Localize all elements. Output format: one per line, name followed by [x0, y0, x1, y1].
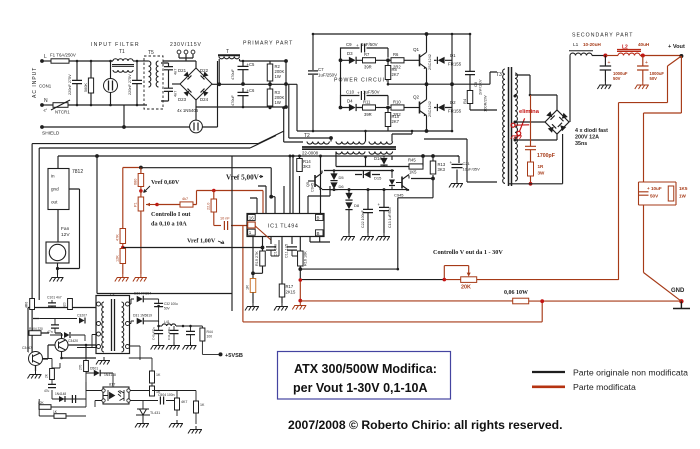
right vertical DC link — [285, 61, 287, 107]
resistor R505 — [50, 369, 55, 380]
node T2 far right — [411, 130, 414, 133]
ground Q1s — [28, 371, 42, 379]
svg-text:1uF/50V: 1uF/50V — [363, 90, 380, 95]
ground Cout2 (red) — [635, 82, 649, 90]
left border vertical A — [31, 144, 33, 352]
pin 15 box (red) — [248, 222, 256, 228]
R19 bottom — [253, 266, 263, 273]
capacitor CX1 220nF/275V — [72, 80, 82, 83]
optocoupler PC817 box — [103, 387, 129, 404]
svg-text:47u: 47u — [44, 389, 50, 393]
svg-text:C9: C9 — [346, 42, 352, 47]
Vref rail black — [141, 168, 271, 197]
resistor R44 100R — [200, 328, 205, 341]
capacitor C8 2nF/1KV — [465, 71, 475, 74]
capacitor C22 100nF — [363, 209, 373, 212]
svg-text:1K: 1K — [200, 403, 205, 407]
ground C13 — [376, 233, 390, 241]
svg-text:C504 100n: C504 100n — [158, 393, 175, 397]
svg-text:50V: 50V — [164, 307, 171, 311]
node pin h top — [319, 155, 322, 158]
node CX2 top — [136, 60, 139, 63]
cluster mid rail — [322, 189, 409, 191]
C101 leads — [51, 300, 53, 308]
svg-text:FR155: FR155 — [448, 109, 462, 114]
D14 to rail — [383, 166, 385, 167]
node controllo left — [299, 278, 303, 282]
capacitor C41 470u — [170, 330, 179, 333]
svg-text:+C5: +C5 — [247, 62, 255, 67]
capacitor C10 loop — [341, 96, 389, 108]
svg-text:470uF: 470uF — [231, 95, 235, 106]
node dc link bottom — [284, 105, 288, 109]
svg-text:D501: D501 — [90, 367, 98, 371]
pin 16 box — [248, 215, 256, 221]
resistor R3 200K — [267, 89, 273, 106]
node CX1 top — [76, 60, 79, 63]
svg-text:D22: D22 — [200, 68, 209, 73]
svg-text:40uH: 40uH — [638, 42, 649, 47]
NTCR1 strike — [51, 100, 70, 110]
node shield left — [40, 125, 44, 129]
capacitor C40 470u — [154, 330, 163, 333]
inductor L41 — [162, 324, 176, 326]
transistor Q2 — [420, 100, 427, 117]
top border A — [32, 131, 284, 144]
svg-text:INPUT FILTER: INPUT FILTER — [91, 42, 140, 48]
svg-text:817: 817 — [109, 383, 115, 387]
svg-text:7812: 7812 — [72, 169, 83, 175]
node sb m1 — [85, 344, 88, 347]
capacitor C32 100u — [154, 303, 163, 306]
standby top rail — [28, 307, 97, 309]
svg-text:4k7: 4k7 — [182, 197, 188, 201]
diode D1 FR155 — [437, 57, 444, 64]
svg-text:C21: C21 — [463, 161, 471, 166]
svg-text:R10: R10 — [392, 114, 400, 119]
svg-text:+ 10uF: + 10uF — [647, 186, 662, 191]
svg-text:NTCR1: NTCR1 — [55, 110, 70, 115]
svg-text:Parte originale non modificata: Parte originale non modificata — [573, 368, 688, 378]
svg-text:4 x diodi fast: 4 x diodi fast — [575, 128, 608, 134]
svg-text:Q1: Q1 — [413, 47, 420, 52]
zener D15 leads — [355, 174, 380, 176]
opto sense rail — [166, 305, 232, 307]
diode D24 — [201, 89, 209, 97]
resistor R2 leads — [269, 61, 271, 89]
varistor VR1 — [104, 79, 118, 93]
red bottom loop — [243, 301, 542, 322]
resistor 680R (red) — [138, 174, 144, 187]
Q5 collector — [321, 171, 323, 174]
power circuit bottom rail — [297, 130, 452, 132]
thermistor TR — [190, 120, 203, 133]
svg-text:1K5: 1K5 — [679, 186, 688, 191]
svg-text:R17: R17 — [286, 284, 294, 289]
node Vout — [679, 54, 683, 58]
standby mid wires — [52, 372, 86, 399]
svg-text:D23: D23 — [178, 97, 187, 102]
svg-text:Controllo V out da 1 - 30V: Controllo V out da 1 - 30V — [433, 249, 503, 256]
fan motor — [46, 242, 69, 263]
ground R17 — [274, 303, 288, 311]
svg-text:220nF 275V: 220nF 275V — [68, 74, 72, 95]
Q2 emitter wire — [426, 116, 428, 132]
capacitor C9 loop — [341, 48, 389, 60]
T3s core — [112, 299, 115, 351]
resistor R42 1K — [150, 371, 155, 383]
rail Vref 1V — [123, 247, 232, 249]
svg-text:Parte modificata: Parte modificata — [573, 382, 636, 392]
svg-text:C11 1n5: C11 1n5 — [285, 244, 289, 258]
capacitor C5 470uF — [238, 66, 249, 69]
node dc link mid — [284, 82, 288, 86]
node C5C6 mid — [241, 82, 245, 86]
DC top rail — [240, 60, 287, 62]
pin 1 box — [248, 229, 256, 235]
capacitor C7 leads — [312, 34, 314, 131]
node cluster 368 — [367, 188, 370, 191]
standby row2 — [39, 318, 77, 320]
fast diode a — [546, 111, 554, 119]
svg-text:4K7: 4K7 — [181, 400, 187, 404]
C22 leads — [367, 190, 369, 233]
vertical x242.9 red loop — [242, 226, 244, 322]
sb caps rail — [176, 325, 202, 327]
R41 wires — [177, 391, 196, 425]
svg-text:T: T — [226, 49, 229, 55]
DC bottom rail — [196, 106, 286, 108]
resistor R7 39R — [363, 58, 376, 63]
red wire cap to pin — [231, 225, 249, 227]
L1 to node — [592, 55, 605, 57]
svg-text:D24: D24 — [200, 97, 209, 102]
node snubber bottom (red) — [529, 182, 533, 186]
transistor Q5 C945 — [315, 173, 322, 190]
resistor R8 2K7 — [385, 66, 391, 80]
svg-text:T5: T5 — [148, 50, 154, 56]
vertical x232 — [231, 156, 233, 311]
svg-text:2K7: 2K7 — [392, 119, 400, 124]
rail to TL494 top — [58, 155, 459, 157]
svg-text:35ns: 35ns — [575, 141, 587, 147]
capacitor 10uF 50V (red) — [639, 192, 649, 195]
svg-text:R504 220: R504 220 — [29, 327, 43, 331]
node vref5 pin — [269, 195, 273, 199]
node T aux to bridge — [217, 82, 221, 86]
opto feed — [129, 346, 140, 360]
node R14 top — [298, 155, 301, 158]
svg-text:12K: 12K — [116, 255, 120, 262]
wire bridge left stub — [172, 83, 180, 85]
node sb1 — [182, 325, 185, 328]
IC bottom pin 7 — [310, 237, 330, 243]
svg-text:per Vout 1-30V 0,1-10A: per Vout 1-30V 0,1-10A — [293, 381, 428, 395]
svg-text:200K: 200K — [275, 95, 285, 100]
svg-text:SECONDARY PART: SECONDARY PART — [572, 33, 633, 39]
svg-text:3K3: 3K3 — [303, 164, 311, 169]
T2 bottom winding taps — [336, 152, 392, 167]
svg-text:22,0: 22,0 — [207, 203, 211, 210]
inductor L1 — [570, 53, 592, 55]
svg-text:in: in — [51, 174, 55, 179]
resistor R10b leads — [387, 108, 389, 132]
svg-text:out: out — [51, 200, 58, 205]
wire N to NTC — [42, 104, 53, 106]
svg-text:C3447: C3447 — [22, 346, 32, 350]
resistor R10 2R2 — [391, 105, 404, 110]
node T3 sec mid — [514, 139, 517, 142]
svg-text:Fan: Fan — [61, 226, 70, 232]
transistor Q1s circle — [29, 352, 43, 366]
T2 feed A — [284, 108, 303, 142]
10uF down to gnd diagonal — [644, 205, 682, 301]
svg-text:D14: D14 — [374, 156, 382, 161]
node C7 top — [312, 33, 315, 36]
svg-text:Q2: Q2 — [413, 95, 420, 100]
transformer T2 top winding B — [336, 142, 365, 145]
node 680R top — [139, 166, 143, 170]
feedback staircase — [398, 179, 433, 270]
red wire 22k to cap — [214, 225, 221, 227]
capacitor C9 — [361, 44, 364, 53]
choke T1 core — [112, 65, 134, 67]
svg-text:D30 FR304: D30 FR304 — [134, 292, 151, 296]
C11 bottom bracket — [292, 250, 299, 256]
diode D23 — [184, 89, 192, 97]
node rail b2 — [282, 106, 285, 109]
arrow to pot junction — [144, 186, 151, 193]
standby row wires — [33, 319, 61, 334]
snubber bottom (red) — [530, 176, 532, 184]
regulator 7812 box — [48, 169, 69, 210]
Q1 collector wire — [426, 34, 428, 52]
svg-text:D6: D6 — [339, 184, 345, 189]
svg-text:1N4148: 1N4148 — [104, 373, 116, 377]
L2 core (red) — [617, 50, 641, 52]
svg-text:CON1: CON1 — [39, 84, 52, 89]
svg-text:C945: C945 — [311, 183, 315, 192]
choke T1 winding lower — [113, 70, 133, 72]
red wire wiper to 4k7 — [157, 204, 180, 206]
node wiper (red) — [155, 203, 159, 207]
resistor 22K leads (red) — [213, 191, 215, 226]
transformer T3 primary — [503, 69, 505, 183]
transistor Q6 C945 — [402, 175, 409, 192]
snubber vertical right — [451, 34, 453, 131]
svg-text:B: B — [317, 231, 320, 236]
node fan bottom — [56, 267, 59, 270]
drive return vertical — [340, 60, 342, 107]
svg-text:1K: 1K — [156, 373, 161, 377]
svg-text:R10: R10 — [393, 100, 401, 105]
inductor L1 core — [569, 50, 593, 52]
svg-text:560K: 560K — [84, 83, 88, 92]
GND symbol — [673, 301, 690, 308]
svg-text:+C6: +C6 — [247, 88, 255, 93]
svg-text:D31 1N5819: D31 1N5819 — [133, 314, 152, 318]
bias chain — [39, 398, 52, 400]
svg-text:100: 100 — [207, 335, 213, 339]
D30 out — [144, 299, 159, 303]
wire 7812 out down — [57, 210, 59, 243]
diode D2 FR155 — [437, 104, 444, 111]
pin1 chain down — [252, 273, 254, 278]
T3s terminals — [97, 302, 130, 349]
node R13 rail — [431, 154, 435, 158]
node x290 rail — [289, 155, 292, 158]
svg-text:R45: R45 — [408, 158, 416, 163]
svg-text:C7: C7 — [318, 67, 324, 72]
Q2 collector wire — [426, 84, 428, 99]
top border B — [39, 136, 276, 149]
transformer T aux winding — [219, 57, 239, 59]
svg-text:C101 4n7: C101 4n7 — [47, 296, 62, 300]
capacitor 1700pF (red) — [525, 146, 536, 149]
wire R11 to R10 — [376, 107, 392, 109]
capacitor C6 470uF — [238, 92, 249, 95]
sec wire to bridge top — [530, 95, 557, 110]
C42 leads — [190, 326, 192, 342]
capacitor C504 100n — [160, 397, 163, 405]
feedback line right — [300, 268, 398, 270]
diode D21 — [184, 72, 192, 80]
svg-text:50V: 50V — [650, 76, 658, 81]
svg-text:1000uF: 1000uF — [650, 71, 665, 76]
capacitor Cout1 1000uF — [600, 66, 612, 70]
svg-text:1W: 1W — [679, 194, 687, 199]
IC top pin h — [320, 156, 322, 214]
diode D22 — [201, 72, 209, 80]
capacitor C42 100n — [186, 331, 195, 334]
transistor Q3 circle — [55, 339, 68, 352]
bridge left to T3 — [515, 121, 545, 123]
capacitor C102 47n — [51, 325, 59, 328]
svg-text:1uF/250V: 1uF/250V — [318, 73, 337, 78]
svg-text:100R/2W: 100R/2W — [483, 95, 488, 112]
resistor 22K (red) — [211, 199, 217, 212]
C102 leads — [54, 319, 56, 334]
TL431 symbol — [136, 409, 150, 420]
node cluster 349 — [348, 188, 351, 191]
D31 out rail — [144, 321, 162, 326]
svg-text:GND: GND — [671, 288, 685, 294]
controllo V sense wire black — [300, 279, 444, 281]
capacitor C10 — [361, 91, 364, 100]
diode D1 stubs — [434, 59, 452, 61]
resistor 4k7 (red) — [180, 202, 193, 207]
thermistor NTCR1 — [53, 103, 68, 108]
capacitor CY1 leads — [161, 63, 169, 79]
node N terminal — [40, 103, 44, 107]
diode D8b — [345, 202, 352, 209]
resistor R4 100R/2W — [467, 91, 473, 104]
resistor 47K (red) — [120, 229, 126, 244]
node 7812 rail — [95, 154, 99, 158]
potentiometer 20K (red) — [461, 277, 477, 283]
svg-text:Vref 5,00V: Vref 5,00V — [226, 174, 260, 182]
wire fuse to T1 — [69, 60, 113, 62]
node CX1 bottom — [76, 104, 79, 107]
red diagonal pin15 — [255, 226, 271, 240]
svg-text:Controllo I out: Controllo I out — [151, 211, 191, 218]
C1 bottom bracket — [271, 240, 279, 256]
svg-text:TL431: TL431 — [150, 411, 160, 415]
1R bottom — [252, 293, 254, 304]
svg-text:D5: D5 — [339, 175, 345, 180]
svg-text:C13 1uF/50V: C13 1uF/50V — [388, 206, 392, 228]
red wire node to L2 — [605, 55, 618, 57]
wire R6 to Q1 base — [404, 59, 420, 61]
node red gnd junction — [298, 299, 302, 303]
10uF 1K5 block outline (red) — [639, 182, 677, 205]
title box — [278, 352, 451, 400]
transformer T5 left winding — [149, 61, 151, 87]
node sb m2 — [60, 357, 63, 360]
ground R41b — [188, 426, 202, 434]
capacitor Cout2 1000uF (red) — [637, 66, 649, 70]
IC bottom pin 5 — [291, 237, 293, 245]
node T3 sec tap1 — [514, 95, 517, 98]
vout feedback diagonal — [619, 56, 682, 280]
IC1 TL494 box — [247, 214, 324, 237]
IC bottom pin 4 — [281, 237, 283, 285]
svg-text:+: + — [378, 202, 381, 207]
resistor 1K5 1W (red) — [668, 186, 674, 201]
D5D6 chain — [333, 171, 335, 191]
svg-text:L: L — [44, 54, 47, 60]
red wire L2 to vout — [640, 55, 681, 57]
svg-text:+: + — [357, 91, 360, 96]
resistor R11 39R — [363, 105, 376, 110]
svg-text:T2: T2 — [304, 133, 310, 139]
secondary L1 wire — [569, 56, 571, 123]
svg-text:C41 470u: C41 470u — [167, 327, 171, 340]
red bus to gnd — [300, 300, 681, 302]
resistor R504 — [29, 331, 41, 336]
capacitor C11 1n5 — [287, 247, 297, 250]
node Q2 emitter rail — [425, 129, 429, 133]
ground R512 — [169, 420, 183, 428]
wire R10 to Q2 base — [404, 107, 420, 109]
svg-text:C3207: C3207 — [77, 314, 87, 318]
standby mesh b — [43, 345, 56, 359]
fan gnd stub — [57, 263, 59, 275]
T2 feed vertical — [286, 84, 297, 131]
svg-text:D21: D21 — [178, 68, 187, 73]
R16 bottom — [299, 266, 301, 269]
svg-text:L1: L1 — [573, 42, 579, 48]
svg-text:+: + — [356, 43, 359, 48]
pot P1 wiper arrow (red) — [146, 203, 157, 207]
transformer T2 top winding A — [307, 142, 329, 145]
transformer T3s box — [96, 296, 130, 354]
half-bridge mid rail — [219, 83, 286, 85]
shield rail — [42, 61, 218, 127]
resistor R45 1K5 — [409, 164, 423, 169]
R45 to rail — [422, 156, 424, 167]
vertical from 7812 area down — [96, 156, 98, 294]
drive secondary rail — [336, 166, 409, 168]
node D1 mid — [450, 82, 454, 86]
standby mesh e — [32, 144, 35, 371]
diode D14 — [380, 158, 387, 165]
resistor R43 — [150, 386, 155, 396]
resistor R13 3K3 — [430, 161, 436, 174]
svg-text:C40 470u: C40 470u — [152, 327, 156, 340]
wire D4 leads — [341, 107, 363, 109]
D501 wires — [86, 373, 113, 387]
